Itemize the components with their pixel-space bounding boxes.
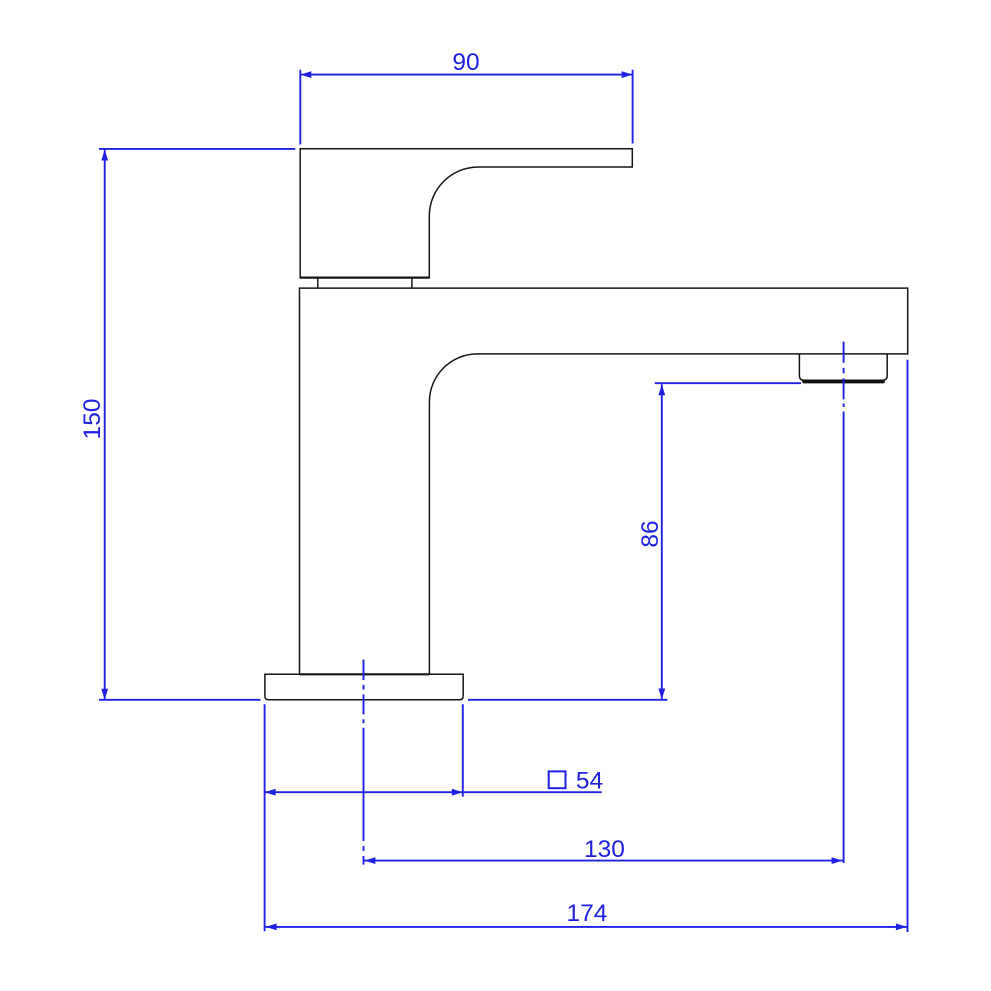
handle neck left line: [317, 278, 319, 289]
dimension 90: right arrowhead: [622, 71, 633, 78]
dimension square-54: extension line left: [264, 704, 266, 796]
dimension 174: left arrowhead: [266, 924, 277, 931]
faucet handle outline: [300, 149, 632, 278]
dimension 90: left arrowhead: [300, 71, 311, 78]
aerator bottom thick line: [804, 380, 883, 384]
base top line overlap (thicker): [300, 673, 430, 675]
svg-text:90: 90: [452, 49, 479, 76]
dimension square-54: square symbol: [549, 771, 566, 788]
dimension 130: right arrowhead: [832, 857, 843, 864]
dimension 86: top arrowhead: [658, 384, 665, 395]
dimension 150: extension line top: [99, 148, 295, 150]
dimension 150: top arrowhead: [101, 150, 108, 161]
dimension 150: extension line bottom: [99, 699, 260, 701]
aerator at spout tip: [799, 354, 887, 380]
dimension 90: extension line right: [632, 70, 634, 144]
dimension 86: extension line top: [655, 382, 801, 384]
dimension 130: centerline extension right (dash-dot then solid): [843, 342, 845, 863]
dimension 174: extension line left: [264, 797, 266, 932]
dimension 130: dimension line: [364, 860, 842, 862]
dimension 150: dimension line: [104, 150, 106, 700]
dimension 86: bottom arrowhead: [658, 689, 665, 700]
dimension 90: dimension line: [300, 74, 632, 76]
handle neck right line: [411, 278, 413, 289]
dimension 130: centerline extension left (dash-dot): [363, 660, 365, 865]
dimension 90: extension line left: [299, 70, 301, 145]
svg-text:174: 174: [567, 900, 608, 927]
svg-text:150: 150: [79, 399, 106, 440]
dimension 150: bottom arrowhead: [101, 689, 108, 700]
handle bottom edge (thicker): [300, 277, 429, 279]
dimension 174: dimension line: [266, 926, 907, 928]
dimension 86: dimension line: [661, 384, 663, 699]
dimension square-54: right arrowhead: [452, 789, 463, 796]
base plate: [265, 674, 463, 700]
dimension 174: extension line right: [907, 360, 909, 932]
svg-text:130: 130: [584, 836, 625, 863]
dimension 174: right arrowhead: [896, 924, 907, 931]
dimension 130: left arrowhead: [364, 857, 375, 864]
svg-text:54: 54: [576, 767, 603, 794]
dimension square-54: extension line right: [462, 704, 464, 796]
dimension square-54: left arrowhead: [265, 789, 276, 796]
dimension square-54: dimension line with leader: [265, 791, 602, 793]
dimension 86: extension line bottom: [468, 699, 667, 701]
faucet body and spout outline: [300, 288, 908, 674]
svg-text:86: 86: [637, 520, 664, 547]
